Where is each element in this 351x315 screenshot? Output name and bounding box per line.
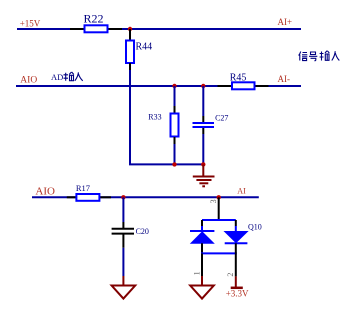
svg-text:+15V: +15V xyxy=(20,19,41,29)
diode D-right of Q10 xyxy=(225,232,248,243)
label 入 glyph xyxy=(75,72,83,81)
transistor Q10 dual diode xyxy=(190,197,262,276)
wire R33 bottom xyxy=(174,144,176,164)
resistor R17 xyxy=(67,183,111,201)
svg-text:AI+: AI+ xyxy=(278,17,293,27)
node junction R33 bottom xyxy=(172,162,176,166)
svg-text:AIO: AIO xyxy=(35,185,55,197)
svg-text:AD: AD xyxy=(51,72,63,82)
capacitor C20 xyxy=(112,222,149,248)
wire Q10 top bar xyxy=(202,219,236,221)
svg-text:C27: C27 xyxy=(215,113,228,122)
wire C20 bottom xyxy=(122,248,124,276)
diode D-left of Q10 xyxy=(190,230,214,232)
node junction C20 xyxy=(121,195,125,199)
wire C27 top xyxy=(202,86,204,116)
wire AD input rail xyxy=(16,85,301,87)
label 信号输入 xyxy=(299,51,340,61)
svg-text:R22: R22 xyxy=(84,11,104,25)
svg-text:1: 1 xyxy=(193,271,202,275)
wire Q10 left leg lower xyxy=(201,243,203,253)
svg-text:+3.3V: +3.3V xyxy=(226,289,249,299)
resistor R22 xyxy=(70,11,122,32)
node junction R22/R44 xyxy=(128,27,132,31)
wire C27 bottom xyxy=(202,134,204,164)
wire Q10 pin1 down xyxy=(201,253,203,276)
svg-text:3: 3 xyxy=(209,199,218,203)
wire top rail +15V to AI+ xyxy=(17,28,301,30)
wire Q10 right leg upper xyxy=(235,220,237,226)
ground signal-ground below C20 xyxy=(112,276,136,299)
resistor R44 xyxy=(126,29,152,70)
ground earth below C27 xyxy=(193,164,215,186)
resistor R33 xyxy=(148,106,178,144)
ground signal-ground below Q10 pin1 xyxy=(190,276,214,299)
svg-text:R44: R44 xyxy=(136,41,153,52)
wire R33 top xyxy=(174,86,176,106)
power +3.3V bar below Q10 pin2 xyxy=(226,276,249,298)
capacitor C27 xyxy=(193,113,229,134)
svg-text:Q10: Q10 xyxy=(248,222,262,231)
svg-text:AIO: AIO xyxy=(20,75,37,85)
resistor R45 xyxy=(218,72,269,89)
svg-text:C20: C20 xyxy=(136,227,149,236)
wire Q10 top pin xyxy=(218,197,220,220)
wire Q10 left leg upper xyxy=(201,220,203,226)
wire Q10 pin2 down xyxy=(235,243,237,253)
svg-text:R17: R17 xyxy=(76,183,90,193)
wire C20 top xyxy=(122,197,124,222)
svg-text:AI-: AI- xyxy=(278,74,291,84)
node junction C27 top xyxy=(201,84,205,88)
wire Q10 bottom bar xyxy=(201,252,237,254)
svg-text:AI: AI xyxy=(237,187,246,196)
node junction C27 bottom xyxy=(201,162,205,166)
wire R44 down and corner to ground rail xyxy=(130,70,203,164)
label AD输入 xyxy=(51,72,63,82)
node junction Q10 xyxy=(217,195,221,199)
svg-text:2: 2 xyxy=(226,273,235,277)
svg-text:R33: R33 xyxy=(148,112,161,121)
label 输 glyph xyxy=(64,72,74,81)
node junction R33 top xyxy=(172,84,176,88)
wire bottom rail AIO to AI xyxy=(32,196,259,198)
svg-text:R45: R45 xyxy=(230,72,247,83)
